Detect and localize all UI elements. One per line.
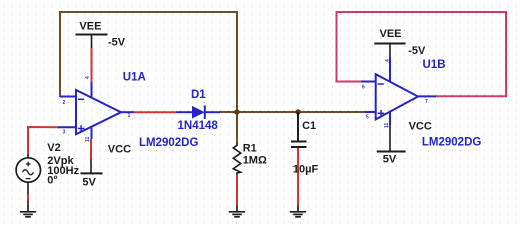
svg-text:5V: 5V bbox=[383, 154, 397, 166]
svg-text:D1: D1 bbox=[191, 89, 206, 101]
svg-text:1N4148: 1N4148 bbox=[178, 120, 219, 132]
svg-text:1MΩ: 1MΩ bbox=[243, 154, 267, 166]
svg-text:-5V: -5V bbox=[408, 45, 426, 57]
svg-text:-5V: -5V bbox=[108, 36, 126, 48]
svg-text:VEE: VEE bbox=[380, 28, 402, 40]
svg-text:VEE: VEE bbox=[79, 20, 101, 32]
svg-text:2: 2 bbox=[63, 100, 66, 106]
svg-text:7: 7 bbox=[425, 99, 428, 105]
svg-text:10µF: 10µF bbox=[293, 164, 319, 176]
svg-text:U1B: U1B bbox=[423, 59, 446, 71]
svg-text:11: 11 bbox=[85, 136, 91, 142]
svg-text:C1: C1 bbox=[302, 120, 316, 132]
svg-text:11: 11 bbox=[384, 122, 390, 128]
svg-text:5V: 5V bbox=[82, 177, 96, 189]
svg-text:LM2902DG: LM2902DG bbox=[139, 137, 198, 149]
svg-text:4: 4 bbox=[385, 59, 391, 62]
svg-text:5: 5 bbox=[366, 115, 369, 121]
svg-text:V2: V2 bbox=[47, 142, 60, 154]
svg-text:4: 4 bbox=[85, 76, 91, 79]
svg-text:VCC: VCC bbox=[108, 144, 131, 156]
svg-text:LM2902DG: LM2902DG bbox=[422, 136, 481, 148]
svg-text:0°: 0° bbox=[47, 175, 58, 187]
svg-text:VCC: VCC bbox=[409, 120, 432, 132]
svg-text:1: 1 bbox=[128, 113, 131, 119]
svg-text:U1A: U1A bbox=[123, 72, 146, 84]
svg-text:R1: R1 bbox=[243, 142, 257, 154]
svg-text:3: 3 bbox=[63, 130, 66, 136]
svg-text:6: 6 bbox=[362, 85, 365, 91]
